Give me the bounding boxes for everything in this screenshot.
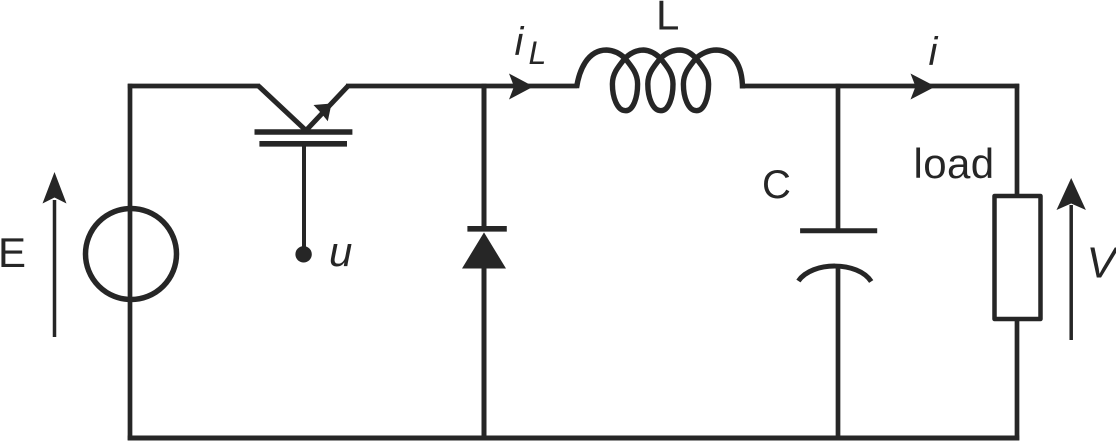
wire: bottom rail [128,436,1020,441]
wire: top rail right (inductor to load corner) [742,84,1019,89]
load resistor (rectangle) [995,196,1041,319]
transistor Q (IGBT switch): collector diagonal [259,86,307,131]
wire: top rail middle (transistor to inductor) [346,84,578,89]
wire: top rail left (source to transistor) [128,84,260,89]
wire: capacitor branch lower [836,264,841,440]
svg-text:i: i [929,30,939,74]
transistor Q: upper bar [255,129,353,135]
arrow V (up arrow at right) [1057,178,1086,340]
current arrow i_L [509,74,534,100]
capacitor C: top plate [800,228,877,233]
voltage source E (circle) [86,209,177,300]
wire: diode branch (top rail to diode) [482,84,487,227]
current arrow i [911,74,936,100]
transistor Q: lower bar (gate) [259,141,347,147]
transistor Q: emitter diagonal with arrow [306,86,348,131]
svg-text:i: i [515,20,525,64]
wire: right vertical upper (corner to load) [1015,84,1020,196]
gate lead wire [302,146,306,248]
capacitor C: curved bottom plate [798,266,871,281]
wire: right vertical lower (load to bottom rail) [1015,319,1020,440]
wire: left vertical (through source) [128,84,133,441]
diode D: triangle (anode, pointing up) [462,232,506,268]
svg-text:E: E [0,229,26,276]
wire: diode branch lower (diode to bottom rail) [482,265,487,440]
svg-text:L: L [529,35,547,71]
wire: capacitor branch upper [836,84,841,230]
inductor L (coil) [577,50,743,111]
svg-text:L: L [656,0,679,39]
svg-text:C: C [762,163,791,207]
diode D: cathode bar [467,226,506,232]
transistor Q: emitter arrowhead [314,104,332,122]
arrow E (up arrow at far left) [43,172,67,337]
gate terminal dot [295,246,311,262]
svg-text:V: V [1087,239,1116,288]
svg-text:load: load [914,140,995,187]
svg-text:u: u [329,228,352,275]
